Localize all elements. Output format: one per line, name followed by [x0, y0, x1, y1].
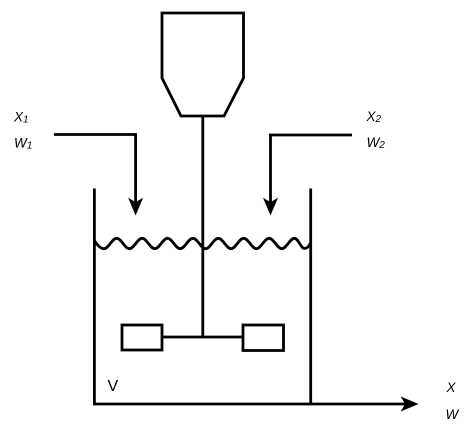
inlet stream 1 wire	[54, 135, 136, 205]
stirrer arm	[162, 336, 243, 339]
inlet stream 1 arrowhead	[128, 198, 143, 216]
svg-text:X1: X1	[13, 110, 29, 126]
svg-text:W1: W1	[14, 136, 32, 152]
tank left wall	[93, 189, 96, 405]
svg-text:V: V	[108, 378, 119, 395]
liquid surface wave	[94, 238, 310, 248]
motor M1	[162, 13, 244, 116]
tank right wall	[309, 189, 312, 405]
right paddle	[243, 325, 284, 351]
svg-text:X2: X2	[366, 109, 382, 125]
svg-text:W: W	[446, 407, 460, 422]
tank bottom / outlet line	[93, 403, 413, 406]
svg-text:X: X	[446, 380, 457, 395]
svg-text:W2: W2	[367, 135, 386, 151]
inlet stream 2 wire	[271, 135, 353, 204]
left paddle	[122, 325, 162, 350]
inlet stream 2 arrowhead	[263, 198, 278, 216]
outlet arrowhead	[401, 397, 419, 412]
shaft	[201, 116, 204, 337]
